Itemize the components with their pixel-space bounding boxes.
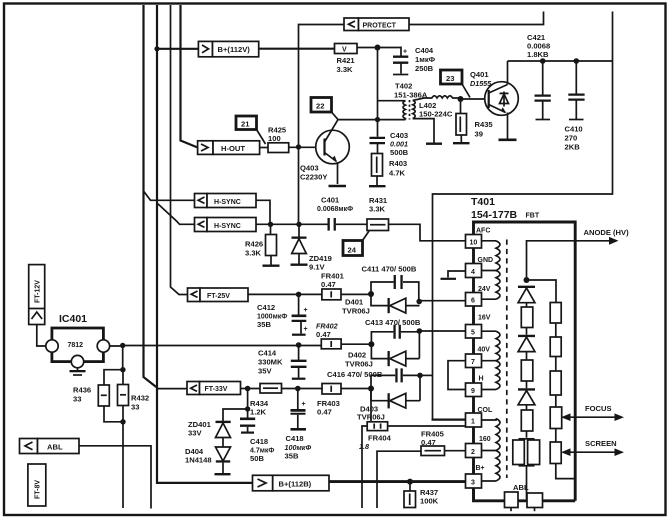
svg-text:35V: 35V bbox=[258, 367, 272, 376]
svg-text:T402: T402 bbox=[395, 82, 412, 91]
wire top right vertical bbox=[433, 12, 613, 420]
wire R425 to Q403 base bbox=[289, 146, 316, 148]
svg-text:FBT: FBT bbox=[526, 213, 540, 220]
wire pin3 to ABL rail bbox=[474, 488, 576, 501]
svg-text:154-177B: 154-177B bbox=[471, 209, 518, 221]
svg-text:9: 9 bbox=[471, 388, 475, 395]
connector H-SYNC upper bbox=[195, 194, 208, 208]
wire to R436/R432 bbox=[104, 346, 123, 386]
svg-text:R426: R426 bbox=[245, 240, 263, 249]
callout box 23 bbox=[441, 70, 463, 84]
wire FR404 right to pin1 bbox=[388, 425, 466, 427]
svg-text:3.3K: 3.3K bbox=[337, 65, 354, 74]
svg-text:H-SYNC: H-SYNC bbox=[214, 223, 241, 230]
svg-text:16V: 16V bbox=[478, 315, 491, 322]
zener ZD401 bbox=[216, 421, 231, 423]
node H-SYNC row R426 bbox=[268, 222, 273, 227]
svg-text:H-OUT: H-OUT bbox=[221, 144, 245, 153]
HV resistor 1 bbox=[521, 307, 533, 328]
svg-text:B+(112B): B+(112B) bbox=[279, 480, 312, 489]
HV diode 2 bbox=[518, 335, 535, 337]
pin 6 bbox=[466, 293, 482, 307]
HV diode 1 bbox=[518, 286, 535, 288]
svg-text:R436: R436 bbox=[73, 386, 91, 395]
svg-text:1.8: 1.8 bbox=[359, 442, 369, 451]
wire FT-33V down branch bbox=[223, 389, 248, 422]
T401 core dashed bbox=[506, 240, 508, 479]
wire PROTECT line bbox=[299, 25, 345, 225]
connector FT-12V bbox=[29, 265, 45, 325]
node R421/C404 bbox=[375, 45, 381, 51]
svg-text:270: 270 bbox=[565, 134, 578, 143]
wire FR401 to D401 node bbox=[341, 293, 371, 295]
svg-text:4: 4 bbox=[471, 269, 475, 276]
wire Q401 base bbox=[461, 98, 486, 100]
node IC401 output bbox=[120, 343, 125, 348]
wire pin7 to pin9 bbox=[448, 361, 466, 390]
svg-text:9.1V: 9.1V bbox=[309, 263, 326, 272]
svg-text:FOCUS: FOCUS bbox=[585, 404, 612, 413]
winding T401 section C bbox=[482, 419, 497, 482]
svg-text:33: 33 bbox=[131, 403, 139, 412]
capacitor C414 bbox=[296, 342, 302, 348]
connector FT-33V bbox=[187, 382, 200, 395]
pin 4 bbox=[466, 264, 482, 278]
wire bus to H-SYNC lower bbox=[157, 203, 195, 224]
diode D402 bbox=[371, 344, 419, 358]
ABL resistor 1 bbox=[505, 492, 519, 508]
svg-text:FT-12V: FT-12V bbox=[35, 280, 42, 303]
svg-text:2KB: 2KB bbox=[565, 143, 581, 152]
svg-text:22: 22 bbox=[316, 102, 324, 111]
connector ABL bbox=[20, 439, 38, 454]
ABL resistor 2 bbox=[527, 493, 543, 508]
node pin5 feed bbox=[417, 328, 423, 334]
ground pin 4 bbox=[448, 271, 466, 278]
svg-text:R403: R403 bbox=[389, 159, 407, 168]
bus wire 4 (to H-OUT) bbox=[181, 5, 198, 148]
bus wire 1 (left vertical) bbox=[144, 5, 156, 387]
wire ABL bbox=[79, 446, 151, 509]
HV line bbox=[527, 241, 576, 280]
node D403 left bbox=[368, 386, 374, 392]
svg-text:+: + bbox=[302, 401, 306, 408]
wire FT-12V to IC401 bbox=[37, 325, 46, 347]
wire H-OUT to R425 bbox=[260, 147, 268, 149]
node B+ bus junction bbox=[154, 46, 159, 51]
svg-text:6: 6 bbox=[471, 298, 475, 305]
wire B+(112V) feed bbox=[157, 48, 198, 50]
svg-text:C410: C410 bbox=[565, 125, 583, 134]
ground Q403 emitter bbox=[329, 185, 347, 188]
svg-text:C411 470/ 500B: C411 470/ 500B bbox=[362, 265, 417, 274]
ground IC401 bbox=[77, 368, 79, 370]
focus divider resistor 3 bbox=[550, 371, 561, 395]
svg-text:C418: C418 bbox=[286, 434, 304, 443]
svg-text:3.3K: 3.3K bbox=[245, 249, 262, 258]
node HV divider bbox=[524, 277, 530, 283]
svg-text:D402: D402 bbox=[348, 351, 366, 360]
svg-text:ANODE (HV): ANODE (HV) bbox=[584, 228, 630, 237]
bus wire 3 (to FT-25V) bbox=[171, 5, 188, 295]
resistor R434 bbox=[260, 384, 282, 394]
svg-text:330MK: 330MK bbox=[258, 358, 283, 367]
node R432 top bbox=[120, 367, 125, 372]
wire C416 node to COL line bbox=[420, 374, 433, 376]
svg-text:R421: R421 bbox=[337, 56, 356, 65]
node pin6 feed bbox=[416, 299, 422, 305]
svg-text:C413 470/ 500B: C413 470/ 500B bbox=[365, 318, 421, 327]
wire B+(112V) to R421 bbox=[259, 48, 335, 50]
wire FR405 row bbox=[377, 451, 421, 508]
node H-SYNC row ZD419 bbox=[296, 222, 301, 227]
connector H-OUT bbox=[198, 141, 213, 155]
wire FR403 to node bbox=[341, 388, 371, 390]
wire H-SYNC row bbox=[256, 223, 328, 225]
wire FR404 left down stub bbox=[362, 426, 367, 508]
svg-text:0.47: 0.47 bbox=[316, 330, 331, 339]
svg-text:V: V bbox=[342, 47, 347, 54]
callout box 24 bbox=[343, 241, 363, 256]
node Q401 base bbox=[458, 96, 464, 102]
capacitor C410 bbox=[575, 61, 577, 120]
HV diode 3 bbox=[518, 388, 535, 390]
wire R436/R432 bottoms bbox=[104, 406, 123, 509]
resistor R421 (safety, V symbol) bbox=[335, 44, 358, 54]
resistor R436 bbox=[98, 385, 109, 406]
svg-text:21: 21 bbox=[241, 120, 250, 129]
wire IC401 output 12V row bbox=[110, 345, 322, 348]
HV resistor 3 bbox=[521, 410, 533, 431]
connector FT-25V bbox=[188, 288, 201, 302]
pin 5 bbox=[466, 325, 482, 339]
diode D404 bbox=[216, 447, 231, 461]
transformer T402 primary winding bbox=[378, 101, 406, 120]
wire bus to FT-33V bbox=[156, 387, 187, 389]
node R437 bbox=[407, 479, 413, 485]
wire to pin 5 bbox=[419, 330, 465, 332]
svg-text:39: 39 bbox=[475, 130, 483, 139]
wire PROTECT right stub bbox=[409, 12, 544, 25]
svg-text:23: 23 bbox=[446, 74, 454, 83]
svg-text:5: 5 bbox=[471, 330, 475, 337]
svg-text:500B: 500B bbox=[390, 148, 409, 157]
fusible resistor FR403 bbox=[322, 384, 341, 395]
capacitor C418 (100) bbox=[297, 389, 299, 429]
svg-text:IC401: IC401 bbox=[59, 313, 87, 325]
ground Q401 emitter bbox=[499, 139, 517, 142]
wire collector rail bbox=[508, 60, 613, 62]
svg-text:1мкФ: 1мкФ bbox=[415, 55, 436, 64]
svg-text:3: 3 bbox=[471, 480, 475, 487]
svg-text:1.2K: 1.2K bbox=[250, 408, 267, 417]
ground D404 bbox=[215, 473, 231, 475]
svg-text:35B: 35B bbox=[257, 320, 271, 329]
svg-text:FT-25V: FT-25V bbox=[207, 293, 230, 300]
connector B+(112B) bbox=[253, 475, 273, 491]
wire R431 to AFC pin10 bbox=[389, 224, 466, 241]
node D402 left bbox=[368, 341, 374, 347]
capacitor C412 bbox=[299, 294, 301, 333]
wire bus to H-SYNC upper bbox=[144, 191, 195, 200]
callout box 21 bbox=[236, 116, 257, 130]
wire Q401 collector to rail bbox=[507, 61, 509, 85]
svg-text:H-SYNC: H-SYNC bbox=[214, 199, 241, 206]
svg-text:100: 100 bbox=[268, 134, 281, 143]
svg-text:ABL: ABL bbox=[513, 483, 529, 492]
svg-text:160: 160 bbox=[479, 436, 491, 443]
svg-text:C412: C412 bbox=[257, 303, 275, 312]
transistor Q401 bbox=[485, 82, 519, 116]
resistor R432 bbox=[118, 385, 129, 406]
wire T402 secondary bottom to ground bbox=[413, 119, 434, 143]
svg-text:FR404: FR404 bbox=[368, 434, 392, 443]
ground R403 bbox=[369, 185, 386, 187]
pin 7 bbox=[466, 354, 482, 368]
wire C404 node down to T402 bbox=[377, 48, 379, 120]
svg-text:C2230Y: C2230Y bbox=[300, 173, 327, 182]
svg-text:SCREEN: SCREEN bbox=[585, 439, 617, 448]
wire FT-25V row bbox=[248, 293, 322, 295]
svg-text:250B: 250B bbox=[415, 64, 434, 73]
svg-text:+: + bbox=[304, 326, 308, 333]
node rail C421 bbox=[540, 58, 546, 64]
svg-text:1.8KB: 1.8KB bbox=[527, 50, 549, 59]
node ZD401 branch bbox=[245, 406, 250, 411]
diode D401 bbox=[371, 294, 420, 306]
svg-text:ABL: ABL bbox=[47, 443, 63, 452]
transistor Q403 bbox=[316, 130, 350, 164]
connector FT-8V bbox=[28, 464, 46, 506]
svg-text:0.47: 0.47 bbox=[317, 408, 332, 417]
svg-text:FT-8V: FT-8V bbox=[35, 480, 42, 499]
wire Q403 collector row bbox=[338, 119, 406, 121]
svg-text:C418: C418 bbox=[250, 437, 268, 446]
resistor R435 bbox=[460, 99, 463, 142]
svg-text:7: 7 bbox=[471, 359, 475, 366]
svg-text:Q401: Q401 bbox=[470, 70, 489, 79]
svg-text:GND: GND bbox=[478, 257, 494, 264]
svg-text:B+(112V): B+(112V) bbox=[218, 45, 251, 54]
svg-text:40V: 40V bbox=[478, 347, 491, 354]
transformer T402 secondary winding bbox=[413, 100, 416, 118]
node Q403 base bbox=[296, 144, 301, 149]
winding T401 section A bbox=[482, 241, 497, 299]
svg-text:TVR06J: TVR06J bbox=[342, 307, 370, 316]
wire Q401 emitter bbox=[507, 113, 509, 139]
zener ZD419 bbox=[298, 224, 300, 263]
pin 2 bbox=[466, 444, 482, 458]
HV resistor 2 bbox=[521, 360, 533, 381]
wire FT-33V row bbox=[241, 388, 261, 390]
resistor R425 bbox=[268, 143, 289, 153]
node D401 left bbox=[368, 291, 374, 297]
svg-text:35B: 35B bbox=[285, 452, 299, 461]
svg-text:0.47: 0.47 bbox=[321, 280, 336, 289]
svg-text:T401: T401 bbox=[471, 196, 495, 208]
svg-text:3.3K: 3.3K bbox=[369, 205, 386, 214]
svg-text:4.7K: 4.7K bbox=[389, 169, 406, 178]
svg-text:24V: 24V bbox=[478, 286, 491, 293]
svg-text:33: 33 bbox=[73, 395, 81, 404]
svg-text:2: 2 bbox=[471, 449, 475, 456]
ground ZD419 bbox=[291, 264, 308, 266]
svg-text:1N4148: 1N4148 bbox=[185, 456, 212, 465]
wire Q403 emitter bbox=[337, 162, 339, 184]
wire D403 node down to FR404 bbox=[370, 389, 372, 423]
resistor R437 bbox=[409, 482, 411, 491]
svg-text:1: 1 bbox=[471, 419, 475, 426]
svg-text:Q403: Q403 bbox=[300, 164, 319, 173]
focus divider resistor 1 bbox=[555, 302, 557, 304]
wire H-SYNC upper to row bbox=[256, 200, 270, 224]
focus divider resistor 5 bbox=[550, 442, 561, 464]
pin 10 bbox=[466, 235, 482, 249]
svg-text:R432: R432 bbox=[131, 394, 149, 403]
svg-text:B+: B+ bbox=[476, 465, 485, 472]
connector B+(112V) bbox=[198, 41, 212, 56]
fusible resistor FR404 bbox=[367, 422, 387, 431]
svg-text:FT-33V: FT-33V bbox=[205, 386, 228, 393]
node C412 bbox=[296, 292, 302, 298]
bus wire 2 (left vertical to B+(112B)) bbox=[157, 5, 253, 483]
focus divider resistor 4 bbox=[550, 407, 562, 429]
wire B+(112B) rail bbox=[329, 480, 466, 483]
transformer T401 outline bbox=[474, 221, 576, 501]
wire HV to right divider bbox=[527, 280, 557, 303]
resistor R426 bbox=[270, 224, 273, 264]
node collector/T402 bbox=[375, 117, 380, 122]
svg-text:C414: C414 bbox=[258, 349, 277, 358]
svg-text:C404: C404 bbox=[415, 46, 434, 55]
resistor R403 bbox=[372, 154, 383, 177]
wire R434 to node bbox=[282, 388, 323, 390]
pin 1 bbox=[466, 413, 482, 427]
svg-text:7812: 7812 bbox=[68, 342, 84, 349]
transformer T402 core bbox=[409, 100, 411, 120]
ground T402 secondary bbox=[426, 143, 442, 145]
svg-text:COL: COL bbox=[478, 407, 494, 414]
svg-text:33V: 33V bbox=[188, 429, 202, 438]
HV parallel pair bbox=[519, 438, 535, 440]
node R434 left bbox=[245, 386, 251, 392]
svg-text:+: + bbox=[304, 307, 308, 314]
svg-text:D401: D401 bbox=[345, 298, 364, 307]
diode D403 bbox=[371, 389, 420, 401]
capacitor C404 bbox=[400, 47, 402, 74]
focus divider resistor 2 bbox=[550, 337, 561, 357]
svg-text:+: + bbox=[403, 49, 407, 56]
wire to pin 6 bbox=[419, 300, 465, 302]
connector H-SYNC lower bbox=[195, 218, 208, 232]
node rail C410 bbox=[574, 58, 580, 64]
pin 3 bbox=[466, 474, 482, 488]
svg-text:150-224C: 150-224C bbox=[419, 110, 453, 119]
ground R435 bbox=[453, 142, 470, 144]
callout box 22 bbox=[311, 98, 332, 113]
svg-text:0.0068мкФ: 0.0068мкФ bbox=[317, 206, 353, 213]
node C418 top bbox=[295, 386, 301, 392]
node C416 right bbox=[417, 373, 423, 379]
inductor L402 bbox=[413, 96, 461, 101]
svg-text:24: 24 bbox=[348, 246, 357, 255]
svg-text:10: 10 bbox=[470, 240, 478, 247]
connector PROTECT bbox=[344, 18, 359, 31]
wire COL line into pin 1 bbox=[432, 419, 466, 421]
damper diode inside Q401 bbox=[503, 92, 505, 107]
winding T401 section B bbox=[482, 331, 497, 389]
svg-text:100K: 100K bbox=[420, 497, 439, 506]
wire FR405 to pin 2 bbox=[445, 450, 466, 452]
capacitor C418 (4.7) bbox=[240, 418, 255, 427]
svg-text:R435: R435 bbox=[475, 120, 494, 129]
pin 9 bbox=[466, 383, 482, 397]
wire FR402 to D402 node bbox=[341, 343, 371, 345]
svg-text:AFC: AFC bbox=[476, 228, 490, 235]
capacitor C403 bbox=[377, 120, 379, 154]
ground R426 bbox=[263, 265, 280, 267]
svg-text:TVR06J: TVR06J bbox=[345, 360, 373, 369]
svg-text:C401: C401 bbox=[321, 196, 340, 205]
node R432 bottom bbox=[120, 419, 125, 424]
svg-text:50B: 50B bbox=[250, 454, 264, 463]
svg-text:C416 470/ 500B: C416 470/ 500B bbox=[327, 370, 383, 379]
svg-text:PROTECT: PROTECT bbox=[363, 23, 397, 30]
svg-text:H: H bbox=[479, 376, 484, 383]
wire R421 to C404 node bbox=[357, 47, 401, 49]
